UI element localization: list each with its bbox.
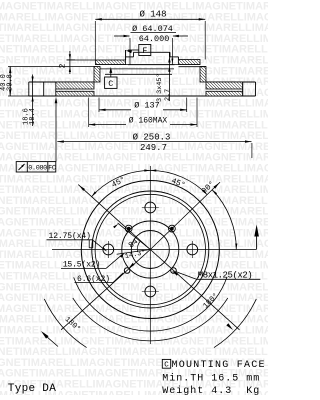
svg-text:18.4: 18.4 [29, 108, 37, 125]
svg-text:39.8: 39.8 [6, 74, 14, 91]
svg-text:2: 2 [59, 63, 68, 68]
svg-text:F: F [142, 46, 147, 56]
svg-text:3.3x45°: 3.3x45° [155, 73, 164, 102]
svg-text:Ø 148: Ø 148 [139, 10, 166, 20]
svg-text:Weight 4.3 Kg: Weight 4.3 Kg [162, 385, 260, 395]
svg-text:64.000: 64.000 [139, 34, 170, 44]
svg-text:Ø 250.3: Ø 250.3 [133, 133, 171, 143]
svg-text:Type DA: Type DA [8, 383, 56, 395]
svg-text:Min.TH 16.5 mm: Min.TH 16.5 mm [162, 373, 260, 385]
svg-text:Ø 160MAX: Ø 160MAX [129, 117, 168, 126]
svg-text:0.080: 0.080 [28, 165, 47, 173]
svg-text:C: C [164, 362, 169, 370]
svg-text:Ø 137: Ø 137 [134, 100, 160, 110]
svg-text:249.7: 249.7 [140, 143, 167, 153]
svg-text:2.7: 2.7 [164, 89, 172, 101]
svg-text:MOUNTING FACE: MOUNTING FACE [172, 360, 266, 371]
svg-text:FC: FC [48, 165, 56, 173]
svg-text:C: C [108, 79, 113, 89]
